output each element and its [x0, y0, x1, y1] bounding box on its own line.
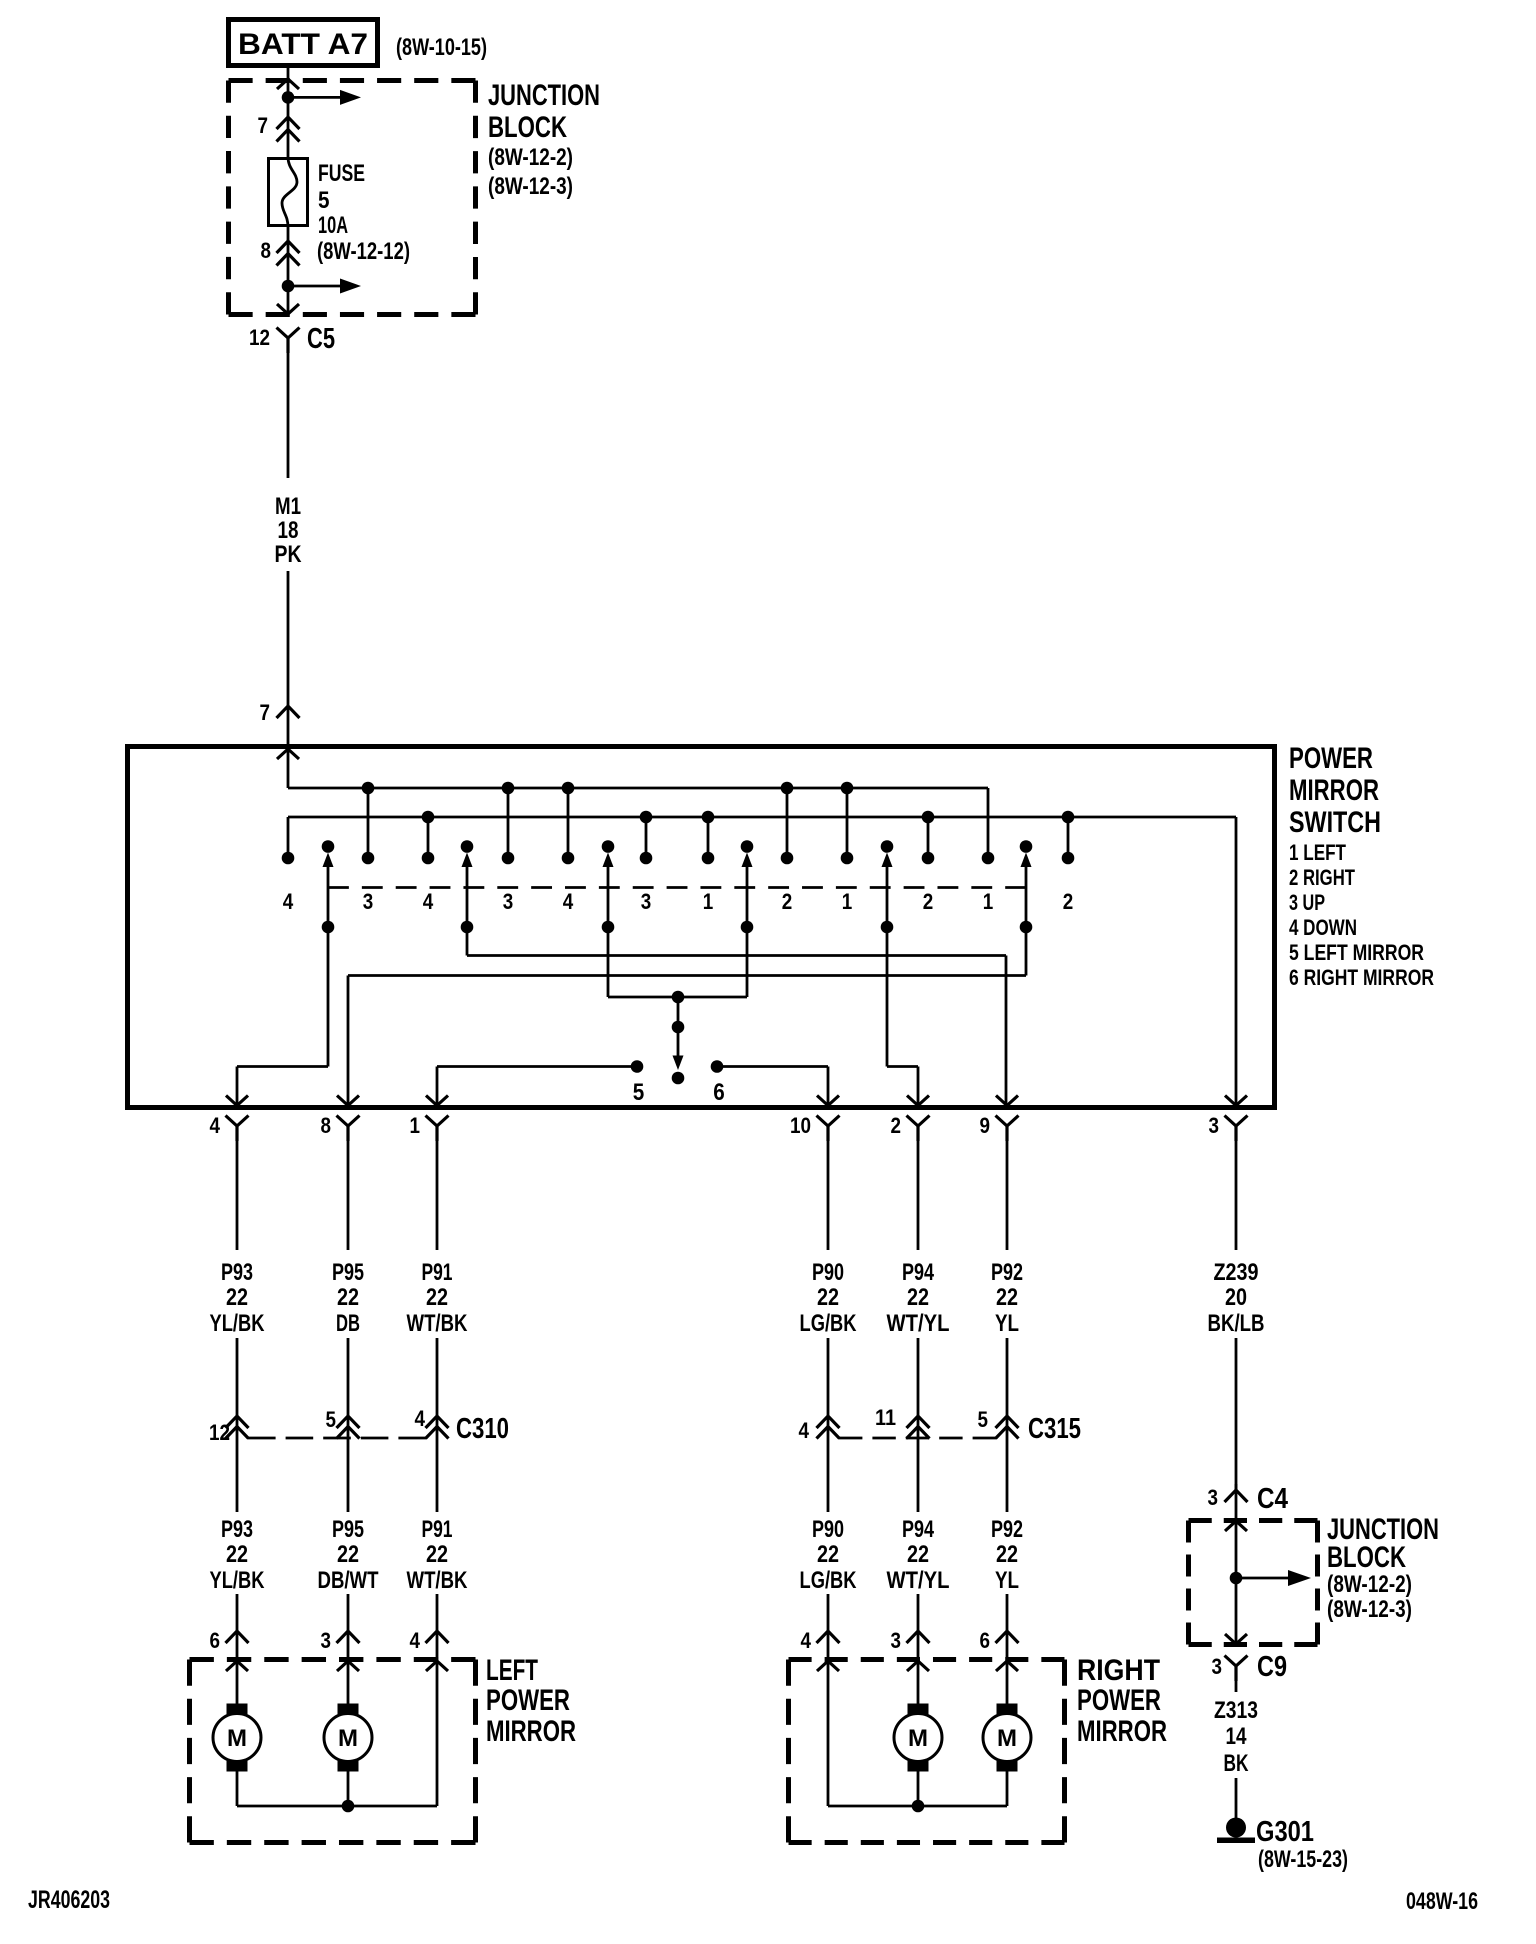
connector pin 7 of switch: [260, 700, 300, 725]
select contact 6 to pin 10 exit: [711, 1060, 828, 1106]
svg-text:3: 3: [321, 1628, 332, 1653]
svg-text:C4: C4: [1257, 1483, 1288, 1515]
svg-text:22: 22: [426, 1541, 448, 1568]
svg-text:1: 1: [703, 889, 714, 914]
svg-text:1: 1: [842, 889, 853, 914]
svg-text:1: 1: [983, 889, 994, 914]
wire M1 lower segment into switch: [287, 571, 290, 788]
contact dots row: [282, 852, 1075, 865]
svg-text:6: 6: [980, 1628, 991, 1653]
svg-text:1 LEFT: 1 LEFT: [1289, 840, 1346, 865]
svg-text:LG/BK: LG/BK: [800, 1567, 858, 1594]
connector C310 pin 5: [326, 1407, 360, 1439]
svg-text:22: 22: [337, 1284, 359, 1311]
svg-text:LEFT: LEFT: [486, 1654, 538, 1687]
svg-text:LG/BK: LG/BK: [800, 1310, 858, 1337]
svg-text:JR406203: JR406203: [28, 1886, 110, 1914]
svg-text:MIRROR: MIRROR: [1289, 774, 1379, 807]
svg-text:C9: C9: [1257, 1651, 1287, 1683]
wire wiper3 to select common: [608, 927, 678, 997]
wire dot to JB1 bottom edge: [287, 286, 290, 315]
wire label P94 22 WT/YL: [887, 1259, 950, 1337]
bus return left end drop to contact 4: [287, 817, 290, 858]
svg-text:4: 4: [210, 1113, 221, 1138]
wire label P91 22 WT/BK: [407, 1259, 469, 1337]
svg-text:6: 6: [210, 1628, 221, 1653]
svg-text:C5: C5: [307, 323, 335, 355]
svg-text:M: M: [908, 1725, 928, 1752]
svg-text:P95: P95: [332, 1516, 364, 1543]
wire return bus to pin 3 exit: [1235, 817, 1238, 1106]
svg-text:YL/BK: YL/BK: [210, 1310, 266, 1337]
svg-text:3: 3: [891, 1628, 902, 1653]
switch pin 9 connector: [980, 1113, 1019, 1141]
svg-text:10: 10: [790, 1113, 811, 1138]
junction block JB2 dashed box: [1189, 1518, 1318, 1523]
switch pin 10 connector: [790, 1113, 840, 1141]
svg-text:POWER: POWER: [1289, 742, 1373, 775]
connector C315 pin 11: [875, 1405, 930, 1439]
svg-text:5: 5: [326, 1407, 337, 1432]
motor M left mirror up-down: [213, 1704, 261, 1772]
svg-text:4: 4: [283, 889, 294, 914]
svg-text:M: M: [227, 1725, 247, 1752]
branch arrow right upper: [288, 96, 340, 99]
svg-text:2 RIGHT: 2 RIGHT: [1289, 865, 1355, 890]
svg-text:(8W-12-3): (8W-12-3): [488, 173, 573, 200]
svg-text:M1: M1: [275, 493, 301, 520]
svg-text:22: 22: [907, 1284, 929, 1311]
arrow out of JB2: [1225, 1634, 1247, 1644]
svg-text:P91: P91: [422, 1259, 453, 1286]
switch pin 8 connector: [321, 1113, 360, 1141]
svg-text:22: 22: [907, 1541, 929, 1568]
power mirror switch box: [128, 747, 1275, 1108]
svg-text:C310: C310: [456, 1413, 509, 1445]
svg-text:YL: YL: [995, 1567, 1019, 1594]
svg-text:22: 22: [426, 1284, 448, 1311]
wire label P93 22 YL/BK lower: [210, 1516, 266, 1594]
switch wiper: [461, 840, 474, 933]
svg-text:(8W-12-12): (8W-12-12): [317, 238, 410, 265]
mirror connector pin 3: [891, 1628, 930, 1653]
svg-text:DB: DB: [336, 1310, 360, 1337]
svg-text:3: 3: [641, 889, 652, 914]
wire label P90 22 LG/BK: [800, 1259, 858, 1337]
switch fixed contacts from B+ bus: [368, 788, 847, 858]
bus B+ horizontal: [288, 787, 988, 790]
ground labels G301 (8W-15-23): [1256, 1816, 1348, 1873]
svg-text:12: 12: [249, 325, 270, 350]
svg-text:18: 18: [278, 517, 299, 544]
svg-text:YL: YL: [995, 1310, 1019, 1337]
svg-text:7: 7: [258, 113, 269, 138]
svg-text:POWER: POWER: [1077, 1684, 1161, 1717]
wire label P93 22 YL/BK: [210, 1259, 266, 1337]
connector pin 8 double chevron: [261, 238, 300, 266]
svg-text:M: M: [997, 1725, 1017, 1752]
wire label Z313 14 BK: [1214, 1697, 1258, 1777]
right mirror common return wires: [828, 1772, 1007, 1813]
wires from lower labels into mirror boxes: [237, 1594, 1007, 1806]
svg-text:2: 2: [782, 889, 793, 914]
svg-text:P94: P94: [902, 1516, 934, 1543]
svg-text:3 UP: 3 UP: [1289, 890, 1325, 915]
arrow out of junction block: [277, 304, 299, 314]
svg-text:4 DOWN: 4 DOWN: [1289, 915, 1357, 940]
svg-text:4: 4: [801, 1628, 812, 1653]
left power mirror dashed box: [190, 1657, 476, 1662]
svg-text:FUSE: FUSE: [318, 160, 365, 187]
svg-text:G301: G301: [1256, 1816, 1314, 1848]
svg-text:P93: P93: [221, 1259, 253, 1286]
branch arrow right JB2: [1236, 1577, 1288, 1580]
svg-text:3: 3: [503, 889, 514, 914]
svg-text:BK: BK: [1224, 1750, 1249, 1777]
switch fixed contacts from return bus: [428, 817, 1068, 858]
bus B+ right end drop to contact 1: [987, 788, 990, 858]
wire label Z239 20 BK/LB: [1208, 1259, 1265, 1337]
mirror connector pin 4: [801, 1628, 840, 1653]
svg-text:WT/BK: WT/BK: [407, 1310, 469, 1337]
svg-text:C315: C315: [1028, 1413, 1081, 1445]
connector C315 dashed link: [839, 1437, 996, 1440]
svg-text:22: 22: [337, 1541, 359, 1568]
svg-text:(8W-12-2): (8W-12-2): [1327, 1571, 1412, 1598]
switch wiper: [1020, 840, 1033, 933]
right power mirror dashed box: [789, 1657, 1065, 1662]
node dots on return bus: [422, 811, 1075, 824]
svg-text:22: 22: [996, 1541, 1018, 1568]
svg-text:10A: 10A: [318, 212, 348, 239]
connector pin 7 double chevron: [258, 113, 300, 142]
svg-text:4: 4: [563, 889, 574, 914]
connector C315 pin 4: [799, 1416, 840, 1443]
switch wiper: [741, 840, 754, 933]
wire BATT A7 feed into junction block: [287, 68, 290, 97]
wire BK to ground: [1235, 1778, 1238, 1818]
arrows into left mirror box: [226, 1661, 448, 1671]
svg-text:048W-16: 048W-16: [1406, 1888, 1478, 1915]
wire Z239 through JB2: [1235, 1484, 1238, 1645]
svg-text:11: 11: [875, 1405, 896, 1430]
svg-text:BLOCK: BLOCK: [1327, 1541, 1406, 1574]
svg-text:YL/BK: YL/BK: [210, 1567, 266, 1594]
svg-text:BATT A7: BATT A7: [238, 28, 368, 61]
power mirror switch labels: [1289, 742, 1434, 990]
svg-text:6: 6: [713, 1079, 725, 1106]
motor M right mirror left-right: [983, 1704, 1031, 1772]
wire fuse to lower dot: [287, 227, 290, 286]
wire label P92 22 YL: [991, 1259, 1023, 1337]
svg-text:P94: P94: [902, 1259, 934, 1286]
motor M right mirror up-down: [894, 1704, 942, 1772]
right power mirror labels: [1077, 1654, 1167, 1748]
mirror connector pin 3: [321, 1628, 360, 1653]
junction block JB1 dashed box: [229, 78, 476, 83]
arrow into JB2: [1225, 1521, 1247, 1531]
switch wiper: [881, 840, 894, 933]
switch pin 1 connector: [410, 1113, 449, 1141]
left power mirror labels: [486, 1654, 576, 1748]
svg-text:22: 22: [226, 1284, 248, 1311]
wire wiper4 to select common: [678, 927, 747, 997]
svg-text:2: 2: [891, 1113, 902, 1138]
ground G301: [1217, 1818, 1255, 1844]
svg-text:22: 22: [817, 1284, 839, 1311]
svg-text:(8W-15-23): (8W-15-23): [1258, 1846, 1348, 1873]
switch position numbers: [283, 889, 1074, 914]
svg-text:P92: P92: [991, 1516, 1023, 1543]
svg-text:5 LEFT MIRROR: 5 LEFT MIRROR: [1289, 940, 1424, 965]
connector C4 pin 3: [1208, 1483, 1289, 1515]
node junction dot JB2: [1230, 1572, 1243, 1585]
connector C5 pin 12: [249, 323, 335, 355]
svg-text:2: 2: [923, 889, 934, 914]
wire wiper2 to pin 9 exit: [467, 927, 1006, 1106]
svg-text:P93: P93: [221, 1516, 253, 1543]
motor M left mirror left-right: [324, 1704, 372, 1772]
node junction dot lower: [282, 280, 295, 293]
svg-text:P95: P95: [332, 1259, 364, 1286]
svg-text:12: 12: [209, 1420, 230, 1445]
switch mechanical dashed link: [328, 886, 1026, 889]
svg-text:PK: PK: [275, 541, 303, 568]
branch arrow right lower: [288, 285, 340, 288]
svg-text:4: 4: [799, 1418, 810, 1443]
svg-text:9: 9: [980, 1113, 991, 1138]
arrows out of switch box: [226, 1096, 1247, 1106]
svg-text:WT/YL: WT/YL: [887, 1310, 950, 1337]
svg-text:SWITCH: SWITCH: [1289, 806, 1381, 839]
wire wiper1 to pin 4 exit: [237, 927, 328, 1106]
svg-text:RIGHT: RIGHT: [1077, 1654, 1160, 1687]
arrows into right mirror box: [817, 1661, 1018, 1671]
wire label P95 22 DB/WT lower: [318, 1516, 379, 1594]
svg-text:Z239: Z239: [1214, 1259, 1259, 1286]
svg-text:(8W-10-15): (8W-10-15): [396, 34, 487, 61]
connector C310 pin 4: [415, 1406, 449, 1439]
wire C9 to Z313 label: [1235, 1666, 1238, 1692]
svg-text:5: 5: [318, 187, 330, 214]
svg-text:(8W-12-3): (8W-12-3): [1327, 1596, 1412, 1623]
wire label P94 22 WT/YL lower: [887, 1516, 950, 1594]
connector C9 pin 3: [1212, 1651, 1288, 1683]
mirror connector pin 6: [210, 1628, 249, 1653]
switch pin 4 connector: [210, 1113, 249, 1141]
connector C315 pin 5: [978, 1407, 1019, 1439]
svg-text:JUNCTION: JUNCTION: [488, 79, 600, 112]
svg-text:1: 1: [410, 1113, 421, 1138]
select labels 5 and 6: [633, 1079, 725, 1106]
svg-text:22: 22: [817, 1541, 839, 1568]
svg-text:4: 4: [415, 1406, 426, 1431]
fuse labels: [317, 160, 410, 265]
bus return horizontal: [288, 816, 1236, 819]
svg-text:WT/YL: WT/YL: [887, 1567, 950, 1594]
select contact 5 to pin 1 exit: [437, 1060, 643, 1106]
svg-text:14: 14: [1226, 1723, 1248, 1750]
svg-text:2: 2: [1063, 889, 1074, 914]
svg-text:BLOCK: BLOCK: [488, 111, 567, 144]
mirror connector pin 6: [980, 1628, 1019, 1653]
svg-text:6 RIGHT MIRROR: 6 RIGHT MIRROR: [1289, 965, 1434, 990]
svg-text:3: 3: [1212, 1654, 1223, 1679]
svg-text:7: 7: [260, 700, 271, 725]
wire M1 upper segment: [287, 338, 290, 478]
svg-text:M: M: [338, 1725, 358, 1752]
node dots on B+ bus: [362, 782, 854, 795]
connector C310 dashed link: [248, 1437, 426, 1440]
svg-text:BK/LB: BK/LB: [1208, 1310, 1265, 1337]
power feed box BATT A7: [229, 20, 378, 66]
svg-text:POWER: POWER: [486, 1684, 570, 1717]
arrow into junction block: [277, 79, 299, 89]
mirror connector pin 4: [410, 1628, 449, 1653]
svg-text:3: 3: [1209, 1113, 1220, 1138]
svg-text:22: 22: [996, 1284, 1018, 1311]
svg-text:4: 4: [423, 889, 434, 914]
mirror select switch common: [672, 991, 685, 1085]
arrow into power mirror switch: [277, 749, 299, 759]
svg-text:Z313: Z313: [1214, 1697, 1258, 1724]
svg-text:4: 4: [410, 1628, 421, 1653]
switch pin 3 connector: [1209, 1113, 1248, 1141]
svg-text:DB/WT: DB/WT: [318, 1567, 379, 1594]
svg-text:5: 5: [978, 1407, 989, 1432]
svg-text:22: 22: [226, 1541, 248, 1568]
svg-text:P91: P91: [422, 1516, 453, 1543]
wires below switch pins: [237, 1126, 1236, 1250]
junction block JB2 labels: [1327, 1513, 1439, 1623]
wires from labels to C310/C315: [237, 1338, 1007, 1512]
wire wiper5 to pin 2 exit: [887, 927, 918, 1106]
svg-text:5: 5: [633, 1079, 645, 1106]
left mirror common return wires: [237, 1772, 437, 1813]
junction block labels: [488, 79, 600, 200]
switch wiper: [602, 840, 615, 933]
svg-text:WT/BK: WT/BK: [407, 1567, 469, 1594]
switch pin 2 connector: [891, 1113, 930, 1141]
svg-text:8: 8: [321, 1113, 332, 1138]
wire wiper6 to pin 8 exit: [348, 927, 1026, 1106]
switch wiper: [322, 840, 335, 933]
svg-text:8: 8: [261, 238, 272, 263]
wire label P92 22 YL lower: [991, 1516, 1023, 1594]
svg-text:(8W-12-2): (8W-12-2): [488, 144, 573, 171]
svg-text:3: 3: [1208, 1485, 1219, 1510]
wire dot to fuse: [287, 97, 290, 158]
fuse FUSE 5 10A: [269, 157, 308, 227]
wire label M1 18 PK: [275, 493, 303, 568]
node junction dot upper: [282, 91, 295, 104]
svg-text:20: 20: [1225, 1284, 1247, 1311]
connector C310 pin 12: [209, 1416, 249, 1445]
svg-text:MIRROR: MIRROR: [1077, 1715, 1167, 1748]
svg-text:P90: P90: [812, 1516, 844, 1543]
svg-text:3: 3: [363, 889, 374, 914]
svg-text:P90: P90: [812, 1259, 844, 1286]
wire label P95 22 DB: [332, 1259, 364, 1337]
svg-text:P92: P92: [991, 1259, 1023, 1286]
wire label P90 22 LG/BK lower: [800, 1516, 858, 1594]
wire label P91 22 WT/BK lower: [407, 1516, 469, 1594]
svg-text:MIRROR: MIRROR: [486, 1715, 576, 1748]
wire Z239 to C4: [1235, 1338, 1238, 1490]
